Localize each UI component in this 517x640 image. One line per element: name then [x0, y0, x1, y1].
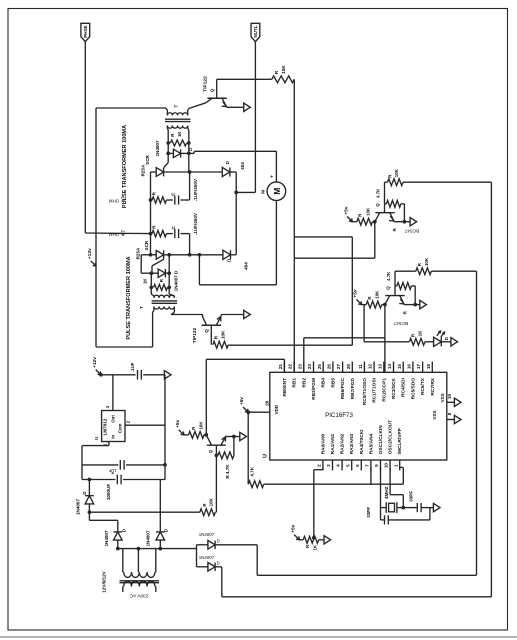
svg-text:BC547: BC547 [404, 227, 419, 233]
pin 8 VSS [447, 419, 454, 421]
svg-text:PULSE TRANSFORMER 100MA: PULSE TRANSFORMER 100MA [126, 256, 132, 339]
svg-text:M: M [272, 188, 282, 195]
resistor R 4.7K Q4 [395, 285, 397, 287]
wire H1 [304, 337, 385, 339]
power +12v rail arrow [91, 261, 95, 265]
svg-text:33PF: 33PF [366, 507, 371, 518]
svg-text:D: D [444, 337, 449, 340]
svg-text:4.7: 4.7 [120, 229, 125, 236]
svg-text:10K: 10K [394, 168, 399, 177]
pin 10 OSC2/CLKOUT [389, 460, 391, 470]
svg-text:VSS: VSS [440, 393, 445, 402]
svg-text:4MHZ: 4MHZ [384, 486, 389, 499]
resistor R 10K Q3 base [357, 218, 373, 225]
svg-text:1000UF: 1000UF [106, 484, 111, 501]
pulse transformer T1 [167, 113, 172, 116]
wire pin7 to H osc [370, 467, 372, 484]
svg-text:4.7: 4.7 [120, 196, 125, 203]
wire Q4 load to right rail B [431, 270, 476, 272]
resistor R 1K (SCR1 gate) [167, 130, 169, 155]
pin 18 RC7/RX [431, 362, 433, 373]
pin 21 RB0/INT [283, 362, 285, 373]
svg-text:1K: 1K [417, 330, 422, 336]
svg-text:D: D [217, 538, 220, 543]
svg-text:16: 16 [407, 364, 412, 370]
power +5v pot [294, 535, 298, 539]
svg-text:10K: 10K [374, 290, 379, 299]
svg-text:Com: Com [118, 423, 123, 433]
wire sense line [89, 511, 199, 513]
svg-text:RC5/SDO: RC5/SDO [410, 378, 416, 400]
svg-text:PHSE: PHSE [83, 25, 88, 38]
pin 25 RB4 [322, 362, 324, 373]
svg-text:26: 26 [327, 364, 332, 370]
svg-text:RC0/T1OSO: RC0/T1OSO [362, 378, 368, 405]
svg-text:RC3/SCK: RC3/SCK [391, 377, 397, 399]
wire pin10 to crystal right [389, 467, 391, 494]
svg-text:10K: 10K [198, 421, 203, 430]
SCR anode bus [150, 172, 152, 255]
svg-text:RA4/T0CKI: RA4/T0CKI [359, 429, 365, 454]
capacitor .1UF (raw) [82, 464, 118, 466]
svg-text:/MCLR/VPP: /MCLR/VPP [397, 427, 403, 454]
diode 1N4007 (SCR2 gate) [151, 272, 158, 274]
svg-text:D: D [164, 529, 169, 532]
resistor R 4.7K Q5 [218, 452, 234, 459]
svg-text:In: In [110, 435, 115, 439]
svg-text:VSS: VSS [432, 410, 437, 419]
wire up to Q3 base node [374, 222, 376, 259]
svg-text:RB6/PGC: RB6/PGC [340, 377, 346, 399]
svg-text:1N4007: 1N4007 [146, 530, 151, 547]
svg-text:7: 7 [365, 464, 370, 467]
capacitor 33PF C1 [380, 508, 382, 520]
wire bottom bus A [222, 596, 492, 598]
power +5v Q5 [179, 430, 183, 434]
wire center tap [137, 549, 139, 573]
pin 19 VSS [447, 401, 454, 403]
svg-text:10K: 10K [208, 497, 213, 506]
wire bridge anode line [118, 548, 197, 550]
pin 23 RB2 [303, 362, 305, 373]
svg-text:22: 22 [288, 364, 293, 370]
svg-text:15: 15 [397, 364, 402, 370]
wire right rail B down [476, 271, 478, 575]
diode 1N4007 D3 (sense) [88, 480, 90, 496]
wire +12v to T1 primary left [96, 107, 166, 109]
svg-text:27: 27 [336, 364, 341, 370]
svg-text:1N4007: 1N4007 [199, 555, 215, 560]
wire branch down through H1 to H2 [351, 237, 353, 345]
resistor R 10K Q4 base [366, 301, 382, 308]
svg-text:33PF: 33PF [409, 491, 414, 502]
svg-text:T: T [173, 105, 179, 108]
wire Q4 base node down to pin 13 [384, 305, 386, 373]
svg-text:1K: 1K [143, 278, 148, 284]
power +5v Q4 [356, 299, 360, 303]
svg-text:10K: 10K [365, 207, 370, 216]
svg-text:4.7K: 4.7K [386, 271, 391, 281]
snubber 1: R 4.7 + C .1UF/450V [152, 197, 166, 203]
ground Q3 emitter [410, 218, 417, 226]
wire H1 down to pin 23 [303, 338, 305, 372]
motor M [267, 182, 286, 201]
wire Q1 base net down to pin 22 [293, 79, 295, 372]
svg-text:1: 1 [393, 464, 398, 467]
svg-text:RB0/INT: RB0/INT [282, 378, 288, 397]
svg-text:23: 23 [297, 364, 302, 370]
wire T1 primary right to Q1 collector [189, 103, 206, 109]
pin 22 RB1 [293, 362, 295, 373]
ground Q2 emitter [244, 310, 251, 318]
resistor R 4.7K Q3 [385, 203, 387, 205]
svg-text:VDD: VDD [274, 404, 279, 414]
pin 15 RC4/SDI [402, 362, 404, 373]
pin 28 RB7/PGD [351, 362, 353, 373]
transistor Q1 TIP122 [207, 97, 226, 99]
wire motor bottom down [275, 201, 277, 285]
svg-text:+5v: +5v [290, 524, 296, 532]
svg-text:5: 5 [345, 464, 350, 467]
pin2 pot wire [322, 467, 324, 469]
PIC16F73 U1 [270, 372, 447, 460]
transistor Q2 TIP122 [171, 314, 203, 316]
wire branch to Q3 base node [294, 257, 375, 259]
svg-text:1K: 1K [177, 131, 182, 137]
svg-text:12: 12 [368, 364, 373, 370]
svg-text:BC547: BC547 [393, 320, 408, 326]
wire 7812 com to gnd rail [125, 424, 165, 426]
svg-text:25: 25 [317, 364, 322, 370]
wire to bridge left [89, 519, 117, 521]
svg-text:+12v: +12v [87, 248, 93, 259]
svg-text:D: D [226, 259, 231, 262]
resistor R 10K Q3 load [385, 181, 388, 183]
ground Q4 emitter [420, 300, 427, 308]
wire NUTL down to motor junction [254, 42, 256, 193]
svg-text:1K: 1K [312, 544, 317, 550]
wire +12v rail vertical [95, 108, 97, 347]
svg-text:19: 19 [447, 394, 452, 400]
svg-text:RB2: RB2 [301, 378, 307, 388]
svg-text:4.7K: 4.7K [250, 466, 255, 476]
wire Q3 load to right rail [403, 181, 491, 183]
pulse transformer T2 [154, 295, 159, 298]
svg-text:R25A: R25A [141, 164, 146, 176]
wire branch to H1 [294, 236, 352, 238]
ground Q5 emitter [240, 432, 247, 440]
wire pin9 to crystal [380, 467, 382, 507]
pin 4 RA2/AN2 [341, 460, 343, 470]
svg-text:3: 3 [326, 464, 331, 467]
wire up to diode B [221, 567, 223, 597]
wire 7812 out to +12v [112, 375, 114, 411]
diode 1N4007 D5 bridge right [159, 480, 161, 532]
wire right rail of PSU [164, 375, 166, 480]
svg-text:U: U [262, 454, 268, 458]
wire +12v rail to T2 primary left [96, 346, 153, 348]
svg-text:RA2/AN2: RA2/AN2 [340, 433, 346, 454]
pin 26 RB5 [332, 362, 334, 373]
resistor 4.7K on +5v [247, 412, 249, 484]
resistor R 10K Q4 load [395, 270, 416, 272]
pin 24 RB3/PGM [313, 362, 315, 373]
ground VSS 8 [454, 415, 461, 423]
svg-text:U: U [94, 437, 99, 440]
diode 404 D2 [223, 250, 231, 259]
wire to NUTL [236, 191, 255, 193]
diode 1N4007 D6 [196, 545, 198, 549]
svg-text:12V/0/12V: 12V/0/12V [102, 570, 107, 592]
svg-text:10: 10 [384, 463, 389, 469]
ground Q1 emitter [244, 103, 251, 111]
svg-text:17: 17 [416, 364, 421, 370]
svg-text:1N4007: 1N4007 [155, 140, 160, 157]
svg-text:+12v: +12v [92, 357, 98, 368]
wire 7812 in [108, 442, 110, 446]
pin 5 RA3/AN3 [351, 460, 353, 470]
svg-text:404: 404 [240, 162, 245, 170]
svg-text:RB5: RB5 [330, 378, 336, 388]
SCR2 R25A [141, 254, 156, 256]
pin 11 RC0/T1OSO [363, 362, 365, 373]
svg-text:OSC2/CLKOUT: OSC2/CLKOUT [388, 420, 394, 454]
svg-text:4.7K: 4.7K [376, 188, 381, 198]
pin 7 RA5/AN4 [370, 460, 372, 470]
svg-text:RB4: RB4 [321, 378, 327, 388]
svg-text:Q: Q [210, 88, 215, 92]
capacitor .1UF [137, 370, 139, 380]
ground .1UF [164, 371, 171, 379]
svg-text:RC6/TX: RC6/TX [420, 377, 426, 395]
svg-text:2: 2 [317, 464, 322, 467]
svg-text:13: 13 [377, 364, 382, 370]
svg-text:RC2/CCP1: RC2/CCP1 [381, 378, 387, 402]
svg-text:RA0/AN0: RA0/AN0 [320, 433, 326, 454]
wire to pin 21 [206, 358, 284, 360]
svg-text:+: + [111, 471, 117, 474]
svg-text:8: 8 [447, 412, 452, 415]
pin 13 RC2/CCP1 [383, 362, 385, 373]
svg-text:NUTL: NUTL [253, 25, 258, 37]
regulator LM7812 [102, 411, 125, 442]
svg-text:10K: 10K [281, 65, 286, 74]
svg-text:LM7812: LM7812 [102, 418, 107, 435]
capacitor 1000UF [82, 479, 115, 481]
svg-text:TIP122: TIP122 [192, 327, 198, 343]
LED D [434, 337, 442, 346]
svg-text:SCR: SCR [145, 154, 150, 164]
svg-text:4: 4 [336, 464, 341, 467]
pin 1 /MCLR/VPP [399, 460, 401, 470]
svg-text:Q: Q [208, 449, 213, 453]
diode 404 D1 [190, 171, 223, 173]
node NUTL flag [251, 23, 260, 41]
transformer 230V/12V [124, 572, 132, 577]
svg-text:OHM: OHM [109, 232, 120, 237]
wire Q5 collector up [205, 359, 207, 435]
power +5v VDD [243, 407, 247, 411]
svg-text:D: D [188, 148, 193, 151]
svg-text:21: 21 [278, 364, 283, 370]
svg-text:+5v: +5v [343, 206, 349, 214]
diode 1N4007 (SCR1 gate) [168, 152, 173, 154]
diode 1N4007 D4 bridge left [117, 520, 119, 532]
svg-text:1N4007: 1N4007 [104, 530, 109, 547]
svg-text:OSC1/CLKIN: OSC1/CLKIN [378, 425, 384, 455]
LED indicator with R 1K [363, 305, 365, 342]
svg-text:RA3/AN3: RA3/AN3 [349, 433, 355, 454]
svg-text:+5v: +5v [175, 419, 181, 427]
pin 6 RA4/T0CKI [360, 460, 362, 470]
ground VSS 19 [454, 398, 461, 406]
pin 16 RC5/SDO [412, 362, 414, 373]
wire up to diode A [256, 545, 258, 576]
pin 3 RA1/AN1 [332, 460, 334, 470]
resistor R 10K Q5 pullup [189, 432, 205, 439]
svg-text:Q: Q [375, 203, 380, 207]
wire H osc [264, 483, 404, 485]
svg-text:RB1: RB1 [292, 378, 298, 388]
svg-text:.1UF: .1UF [130, 362, 135, 372]
svg-text:SCR: SCR [144, 240, 149, 250]
svg-text:D: D [217, 560, 220, 565]
resistor R 10K Q5 base (sense) [200, 509, 216, 516]
svg-text:10K: 10K [424, 257, 429, 266]
pin 17 RC6/TX [422, 362, 424, 373]
svg-text:RB7/PGD: RB7/PGD [350, 377, 356, 399]
svg-text:Out: Out [110, 415, 115, 423]
svg-text:.1UF/450V: .1UF/450V [193, 178, 198, 201]
ground LED [451, 338, 458, 346]
svg-text:RC7/RX: RC7/RX [430, 377, 436, 395]
svg-text:18: 18 [426, 364, 431, 370]
ground crystal [433, 503, 440, 511]
diode 1N4007 D7 [196, 549, 198, 567]
wire D1 cathode down to D2 [235, 172, 237, 255]
resistor R 10K (Q1 base) [217, 78, 272, 80]
svg-text:T: T [139, 306, 145, 309]
svg-text:RA5/AN4: RA5/AN4 [368, 433, 374, 454]
svg-text:28: 28 [346, 364, 351, 370]
wire PHSE down [84, 42, 86, 233]
svg-text:404: 404 [243, 262, 248, 270]
pin 12 RC1/T1OSI [373, 362, 375, 373]
svg-text:230V AC: 230V AC [129, 593, 148, 599]
svg-text:1N4007: 1N4007 [199, 532, 215, 537]
svg-text:D: D [122, 529, 127, 532]
pin 27 RB6/PGC [342, 362, 344, 373]
resistor R 1K (SCR2 gate) [154, 284, 168, 290]
svg-text:RC4/SDI: RC4/SDI [401, 377, 407, 397]
wire PHSE to SCR anode bus [85, 232, 150, 235]
pin 2 RA0/AN0 [322, 460, 324, 470]
node PHSE flag [81, 23, 90, 41]
svg-text:14: 14 [387, 364, 392, 370]
svg-text:PIC16F73: PIC16F73 [325, 412, 353, 419]
svg-text:Q: Q [204, 329, 209, 333]
svg-text:1N4007: 1N4007 [76, 499, 81, 516]
svg-text:R25A: R25A [135, 247, 140, 259]
svg-text:1N4007 D: 1N4007 D [174, 270, 179, 291]
svg-text:RA1/AN1: RA1/AN1 [330, 433, 336, 454]
power +5v Q3 [347, 217, 351, 221]
svg-text:D: D [225, 161, 230, 164]
svg-text:6: 6 [355, 464, 360, 467]
svg-text:+5v: +5v [353, 289, 359, 297]
svg-text:20: 20 [264, 400, 269, 406]
SCR1 R25A [151, 171, 157, 173]
wire right rail A down [490, 182, 492, 597]
svg-text:10K: 10K [221, 330, 226, 339]
wire bottom bus B [257, 574, 476, 576]
pin 14 RC3/SCK [393, 362, 395, 373]
power +12v out [96, 370, 100, 374]
svg-text:RB3/PGM: RB3/PGM [311, 378, 317, 400]
wire motor top net [189, 152, 194, 154]
svg-text:11: 11 [358, 364, 363, 369]
resistor R 10K (Q2 base) [213, 341, 229, 348]
svg-text:OHM: OHM [109, 198, 120, 203]
pin 20 VDD [248, 411, 270, 413]
snubber 2: R 4.7 + C .1UF/450V [152, 230, 166, 236]
svg-text:+: + [269, 175, 275, 178]
capacitor 33PF C2 [403, 507, 417, 509]
svg-text:PULSE TRANSFORMER 100MA: PULSE TRANSFORMER 100MA [122, 125, 128, 208]
svg-text:R 4.7K: R 4.7K [225, 464, 230, 479]
svg-text:RC1/T1OSI: RC1/T1OSI [372, 377, 378, 402]
pin 9 OSC1/CLKIN [380, 460, 382, 470]
svg-text:D: D [82, 491, 87, 494]
svg-text:9: 9 [374, 464, 379, 467]
svg-text:M: M [260, 190, 266, 194]
svg-text:TIP122: TIP122 [202, 76, 208, 92]
svg-text:+5v: +5v [239, 397, 245, 405]
pin1 MCLR wire [400, 466, 404, 468]
svg-text:.1UF/450V: .1UF/450V [193, 212, 198, 235]
port arrow pot [324, 536, 331, 544]
svg-text:Q: Q [385, 286, 390, 290]
svg-text:24: 24 [307, 364, 312, 370]
